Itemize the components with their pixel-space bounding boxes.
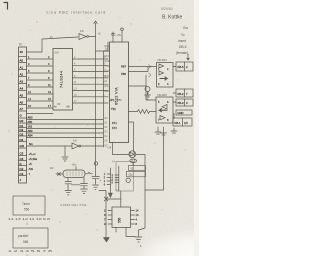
svg-text:RS1: RS1 (105, 51, 110, 53)
svg-text:PB6: PB6 (121, 72, 126, 76)
svg-text:PB5: PB5 (117, 99, 122, 102)
svg-text:RS2: RS2 (105, 56, 110, 58)
svg-text:GN: GN (20, 144, 24, 148)
svg-text:1/6: 1/6 (73, 139, 77, 143)
svg-text:IRQ: IRQ (105, 86, 109, 88)
svg-text:RS0: RS0 (105, 46, 110, 48)
svg-text:6522 VIA: 6522 VIA (115, 87, 119, 105)
svg-text:+5v: +5v (72, 163, 77, 167)
svg-text:Vcc +5v: Vcc +5v (111, 33, 122, 37)
svg-text:insert: insert (178, 39, 186, 43)
svg-text:40: 40 (20, 50, 24, 54)
svg-text:+5: +5 (29, 162, 33, 166)
svg-text:KB-2: KB-2 (178, 92, 184, 96)
svg-text:AB3: AB3 (28, 129, 33, 133)
svg-text:74LS05: 74LS05 (157, 93, 167, 97)
svg-text:+: + (100, 179, 102, 183)
svg-text:PB7: PB7 (121, 65, 126, 69)
svg-text:AB1: AB1 (28, 120, 33, 124)
svg-text:DB-9: DB-9 (179, 45, 187, 49)
svg-text:JP1: JP1 (110, 98, 115, 102)
svg-text:KT1: KT1 (112, 121, 117, 125)
svg-text:14 13 12 11 10 9 8: 14 13 12 11 10 9 8 (8, 218, 51, 221)
svg-text:KT2: KT2 (112, 126, 117, 130)
svg-text:C6: C6 (20, 157, 24, 161)
svg-text:556: 556 (118, 217, 122, 223)
svg-text:A5: A5 (20, 94, 24, 98)
svg-text:HB: HB (66, 105, 70, 109)
svg-text:KB-1: KB-1 (175, 121, 181, 125)
svg-text:A3: A3 (20, 80, 24, 84)
svg-text:KB-3: KB-3 (178, 101, 184, 105)
svg-text:A0: A0 (20, 59, 24, 63)
svg-text:D3: D3 (20, 133, 24, 137)
svg-text:1A2: 1A2 (28, 125, 33, 129)
svg-text:Timer: Timer (22, 202, 31, 206)
svg-text:556: 556 (24, 208, 30, 212)
svg-text:Gw: Gw (183, 26, 189, 30)
svg-text:.05μ: .05μ (128, 175, 133, 177)
svg-text:AB4: AB4 (28, 134, 33, 138)
svg-text:74LS244: 74LS244 (60, 71, 64, 88)
svg-text:C2: C2 (20, 167, 24, 171)
svg-text:A4: A4 (20, 87, 24, 91)
svg-text:556: 556 (23, 240, 29, 244)
svg-text:G4: G4 (55, 51, 59, 55)
svg-text:D0: D0 (20, 119, 24, 123)
svg-text:RS3: RS3 (105, 61, 110, 63)
svg-text:74LS04: 74LS04 (157, 58, 167, 62)
svg-text:TB1: TB1 (111, 107, 116, 111)
svg-text:CS2: CS2 (105, 71, 110, 73)
svg-text:4.9152 MHz XTAL: 4.9152 MHz XTAL (60, 203, 87, 207)
svg-text:CS1: CS1 (105, 66, 110, 68)
svg-text:5/29/80: 5/29/80 (161, 7, 173, 11)
svg-text:A%: A% (29, 167, 34, 171)
svg-text:R: R (20, 162, 22, 166)
svg-text:C5: C5 (20, 152, 24, 156)
svg-text:Lisa KBC interface card: Lisa KBC interface card (47, 11, 106, 15)
svg-text:D4: D4 (20, 138, 24, 142)
svg-text:Vb: Vb (57, 102, 61, 106)
svg-text:GND: GND (178, 111, 184, 115)
svg-text:5m: 5m (29, 142, 33, 146)
svg-text:A6: A6 (20, 101, 24, 105)
svg-text:A7: A7 (20, 107, 24, 111)
svg-text:KB-5: KB-5 (178, 65, 184, 69)
svg-text:4,5: 4,5 (184, 121, 188, 125)
svg-text:+5,+v: +5,+v (29, 152, 37, 156)
svg-text:parallel: parallel (18, 234, 29, 238)
svg-text:C3: C3 (20, 172, 24, 176)
svg-text:+5,%w: +5,%w (29, 157, 38, 161)
svg-text:7,24: 7,24 (107, 147, 112, 150)
svg-text:D2: D2 (20, 128, 24, 132)
svg-text:1/6: 1/6 (80, 29, 84, 33)
svg-text:1 2 3 4 5 6 7 8: 1 2 3 4 5 6 7 8 (8, 250, 54, 253)
svg-text:To: To (181, 33, 185, 37)
svg-text:AB0: AB0 (28, 116, 33, 120)
svg-text:4M: 4M (50, 167, 53, 170)
svg-text:B. Kottke: B. Kottke (162, 15, 183, 21)
svg-text:A2: A2 (20, 73, 24, 77)
svg-text:A1: A1 (20, 66, 24, 70)
svg-text:RES: RES (105, 91, 110, 93)
svg-text:(female): (female) (176, 51, 188, 55)
svg-text:IC: IC (19, 43, 23, 47)
